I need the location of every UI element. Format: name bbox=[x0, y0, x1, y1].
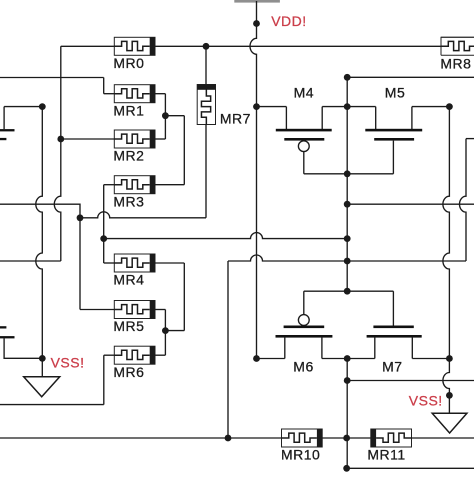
wire MR1-MR2 vertical bbox=[164, 94, 166, 139]
wire MR3-MR4 left vertical bbox=[103, 185, 105, 263]
wire VSS left stub bbox=[41, 358, 43, 376]
transistor N-left gate bar (cropped) bbox=[0, 326, 6, 328]
node left column top bbox=[39, 103, 46, 110]
node VDD dot bbox=[253, 20, 260, 27]
transistor M4 gate bar bbox=[284, 138, 324, 141]
node inverting input bbox=[77, 214, 84, 221]
node VSS left bbox=[39, 355, 46, 362]
wire mid stub above rail bbox=[346, 77, 348, 106]
svg-text:MR4: MR4 bbox=[113, 272, 144, 288]
transistor M4 source lead bbox=[285, 107, 287, 129]
node mid y=238.6 bbox=[344, 235, 351, 242]
svg-text:MR10: MR10 bbox=[281, 446, 320, 462]
wire output right y=204.2 bbox=[347, 203, 474, 205]
node bottom out bbox=[343, 465, 350, 472]
node mid y=204.2 bbox=[344, 201, 351, 208]
memristor MR5 bbox=[114, 301, 155, 319]
node MR0-MR7-MR8 junction bbox=[203, 43, 210, 50]
wire bottom rail y=438 left bbox=[0, 437, 282, 439]
node out y=380.5 bbox=[344, 377, 351, 384]
svg-text:M5: M5 bbox=[385, 85, 405, 101]
transistor M7 gate bar bbox=[373, 326, 413, 329]
svg-text:VSS!: VSS! bbox=[51, 354, 85, 370]
wire summing left y=204.2 with corner bbox=[0, 204, 80, 218]
memristor MR1 bbox=[114, 85, 155, 103]
node MR34 tap y=238.6 bbox=[100, 235, 107, 242]
wire into MR4 left bbox=[104, 262, 115, 264]
svg-text:MR7: MR7 bbox=[220, 111, 251, 127]
transistor M7 channel bar bbox=[367, 335, 422, 338]
wire into MR2 left bbox=[61, 138, 115, 140]
node mid drain rail bbox=[344, 355, 351, 362]
svg-text:MR3: MR3 bbox=[113, 193, 144, 209]
wire M6 right to mid bbox=[322, 358, 375, 360]
wire output right y=380.5 bbox=[347, 380, 474, 382]
wire MR5 out right bbox=[155, 309, 165, 311]
wire M6 gate lead bbox=[303, 291, 305, 314]
wire rail M5 drain to right bbox=[412, 106, 450, 108]
wire rail mid to M5 source bbox=[347, 106, 376, 108]
wire into MR1 left bbox=[104, 93, 115, 95]
transistor M6 channel bar bbox=[276, 335, 333, 338]
node gate tie bbox=[344, 170, 351, 177]
transistor M6 drain lead bbox=[321, 337, 323, 359]
wire output top right y=77.3 bbox=[347, 76, 474, 78]
svg-text:VDD!: VDD! bbox=[271, 13, 306, 29]
transistor M5 source lead bbox=[375, 107, 377, 129]
wire M5 gate lead bbox=[392, 141, 394, 174]
node VSS right bbox=[446, 392, 453, 399]
wire inverting-node vertical x=80 bbox=[79, 218, 81, 310]
wire MR6 out right bbox=[155, 354, 165, 356]
wire jog down to MR1 level bbox=[103, 78, 105, 94]
transistor M7 source lead bbox=[374, 337, 376, 359]
wire MR4 out bottom bbox=[165, 330, 184, 332]
wire into MR0 left bbox=[61, 45, 115, 47]
wire MR10-MR11 bbox=[322, 437, 371, 439]
wire feedback y=238.6 bbox=[104, 233, 348, 239]
svg-text:MR8: MR8 bbox=[440, 56, 471, 72]
VDD rail stub (gray, cropped at top) bbox=[234, 0, 280, 3]
svg-text:MR5: MR5 bbox=[113, 318, 144, 334]
wire gate tie y=173.8 bbox=[304, 173, 394, 175]
wire right column x=466 bbox=[460, 139, 466, 261]
wire M4 gate lead bbox=[303, 152, 305, 174]
node gate node y=291.2 bbox=[344, 288, 351, 295]
node VDD-M6 bbox=[253, 355, 260, 362]
memristor MR4 bbox=[114, 254, 155, 272]
wire x=228 vertical bbox=[227, 261, 229, 438]
wire input A horizontal y=77.5 bbox=[0, 77, 104, 79]
wire rail VDD to M4 source bbox=[257, 106, 287, 108]
node bottom tap x=228 bbox=[225, 435, 232, 442]
transistor M6 source lead bbox=[284, 337, 286, 359]
wire MR7 top lead bbox=[205, 46, 207, 84]
svg-text:M7: M7 bbox=[382, 359, 402, 375]
wire bottom out y=468.3 bbox=[347, 467, 474, 469]
node output top y=77.3 bbox=[344, 74, 351, 81]
wire left column vertical x=42.3 bbox=[36, 107, 43, 359]
wire rail M4 drain to mid bbox=[322, 106, 347, 108]
wire bottom rail y=438 right bbox=[412, 437, 474, 439]
transistor M6 gate bubble bbox=[298, 315, 309, 326]
transistor M5 channel bar bbox=[365, 129, 422, 132]
wire y=261 bump over VDD line bbox=[228, 255, 466, 261]
wire into MR3 left bbox=[104, 184, 115, 186]
node rail-right bbox=[446, 103, 453, 110]
wire MR3 chain vertical bbox=[183, 116, 185, 185]
node rail-VDD bbox=[253, 103, 260, 110]
transistor M4 drain lead bbox=[321, 107, 323, 129]
wire MR7 bottom lead bbox=[205, 125, 207, 218]
wire P-left drain to node bbox=[4, 106, 42, 108]
wire N-left source lead bbox=[4, 338, 42, 358]
transistor M4 channel bar bbox=[276, 129, 332, 132]
memristor MR8 (cropped) bbox=[441, 37, 474, 55]
wire bottom-left output y=404.6 bbox=[0, 404, 104, 406]
svg-text:MR6: MR6 bbox=[113, 364, 144, 380]
wire M7 gate lead bbox=[392, 291, 394, 325]
wire MR7 bottom to node y=217.8 bbox=[80, 212, 206, 218]
wire MR1 out right bbox=[155, 93, 165, 95]
wire right column x=449.4 bbox=[443, 107, 449, 414]
wire MR2 out right bbox=[155, 138, 165, 140]
svg-text:M6: M6 bbox=[293, 359, 313, 375]
svg-text:MR2: MR2 bbox=[113, 148, 144, 164]
memristor MR3 bbox=[114, 176, 155, 194]
svg-text:VSS!: VSS! bbox=[409, 392, 443, 408]
transistor M5 gate bar bbox=[374, 138, 414, 141]
wire corner x=60.8 top to MR0 bbox=[54, 46, 60, 261]
wire MR0 out to MR8 (through MR7 top node) bbox=[155, 45, 441, 47]
wire M6 left to VDD line bbox=[257, 358, 285, 360]
transistor M7 drain lead bbox=[411, 337, 413, 359]
wire left stub y=261 bbox=[0, 260, 61, 262]
transistor M5 drain lead bbox=[411, 107, 413, 129]
wire VDD vertical x=256.5 (hops MR0-MR8 wire) bbox=[250, 1, 256, 359]
wire MR6 left vertical bbox=[103, 355, 105, 404]
wire MR5-MR6 vertical bbox=[164, 310, 166, 356]
memristor MR6 bbox=[114, 346, 155, 364]
wire right stub y=138.6 bbox=[466, 138, 474, 140]
node MR4-MR5-MR6 junction bbox=[162, 327, 169, 334]
wire mid vertical x=347.2 upper bbox=[346, 107, 348, 292]
memristor MR0 bbox=[114, 37, 155, 55]
transistor M4 gate bubble bbox=[298, 141, 309, 152]
memristor MR2 bbox=[114, 130, 155, 148]
memristor MR10 bbox=[282, 429, 323, 447]
node mid y=261 bbox=[344, 258, 351, 265]
node MR10-MR11 junction bbox=[343, 435, 350, 442]
wire P-left drain lead bbox=[3, 107, 5, 130]
wire node to MR3 chain bbox=[165, 115, 184, 117]
wire mid vertical x=347.2 lower bbox=[346, 359, 348, 469]
wire MR3 out right bbox=[155, 184, 184, 186]
node MR2 tap on x=60.8 bbox=[57, 136, 64, 143]
svg-text:MR11: MR11 bbox=[367, 446, 405, 462]
wire into MR6 left bbox=[104, 354, 115, 356]
wire MR4 out vertical bbox=[183, 263, 185, 331]
wire MR4 out right bbox=[155, 262, 184, 264]
wire gate tie y=291.2 bbox=[304, 290, 394, 292]
memristor MR11 (mirrored) bbox=[371, 429, 412, 447]
transistor M6 gate bar bbox=[284, 326, 325, 329]
node MR1-MR2-MR3 junction bbox=[162, 112, 169, 119]
memristor MR7 (vertical) bbox=[197, 85, 215, 125]
transistor N-left channel bar (cropped) bbox=[0, 336, 15, 338]
wire M7 right to right column bbox=[412, 358, 449, 360]
wire into MR5 left bbox=[80, 309, 114, 311]
transistor P-left channel bar (cropped) bbox=[0, 129, 15, 131]
svg-text:MR1: MR1 bbox=[113, 102, 144, 118]
transistor P-left gate bar (cropped) bbox=[0, 138, 6, 140]
svg-text:MR0: MR0 bbox=[113, 55, 144, 71]
ground VSS left triangle bbox=[24, 377, 60, 397]
svg-text:M4: M4 bbox=[294, 85, 314, 101]
node rail-mid (gate tie) bbox=[344, 103, 351, 110]
node right column drain bbox=[446, 355, 453, 362]
ground VSS right triangle bbox=[432, 413, 467, 433]
